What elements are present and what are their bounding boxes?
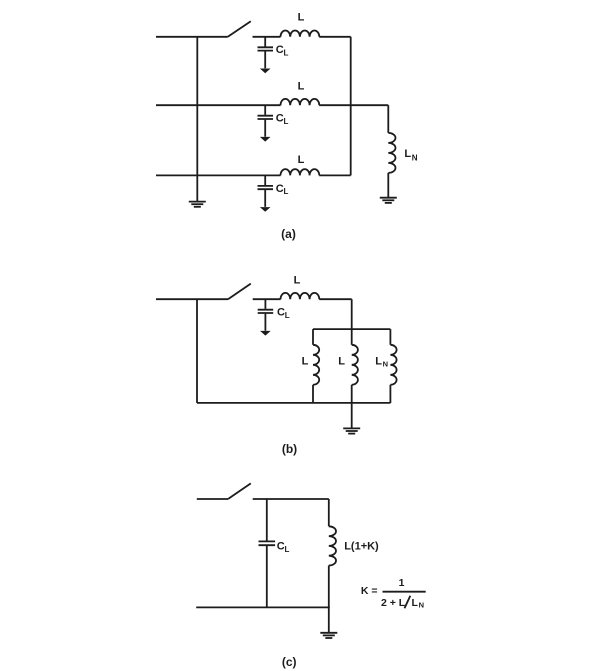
svg-text:L(1+K): L(1+K) [344, 541, 379, 553]
wire box top [313, 328, 390, 330]
capacitor CL row3 lead [264, 175, 266, 207]
inductor L(1+K) lead bottom [328, 566, 330, 608]
arrow ground b [260, 331, 271, 336]
wire b top right [319, 298, 352, 300]
svg-text:2 + L: 2 + L [381, 597, 406, 609]
inductor L row3 [281, 169, 320, 175]
inductor L left branch [313, 329, 319, 403]
switch S1 blade [228, 21, 251, 37]
svg-text:L: L [404, 148, 411, 160]
wire phase1 after switch [253, 36, 281, 38]
ground c [320, 633, 337, 638]
svg-text:L: L [302, 356, 309, 368]
inductor LN lead bottom [387, 173, 389, 198]
formula K equation [361, 577, 426, 610]
wire to ground c [328, 607, 330, 632]
capacitor CL c bottom lead [266, 546, 268, 607]
left vertical wire b [196, 299, 198, 403]
inductor LN coil [388, 133, 395, 173]
svg-text:L: L [285, 545, 290, 554]
capacitor CL row1 plates [258, 47, 274, 50]
svg-text:1: 1 [399, 577, 405, 589]
svg-text:(a): (a) [281, 227, 296, 241]
capacitor CL row2 lead [264, 105, 266, 137]
svg-text:L: L [298, 12, 305, 24]
inductor LN lead top [387, 105, 389, 133]
capacitor CL row2 plates [258, 116, 274, 119]
capacitor CL b lead [264, 299, 266, 331]
svg-text:L: L [298, 154, 305, 166]
inductor LN right branch [390, 329, 396, 403]
ground b [343, 428, 360, 433]
svg-text:L: L [285, 311, 290, 320]
svg-text:K =: K = [361, 585, 378, 597]
inductor L row2 [281, 99, 320, 105]
wire phase3 [156, 174, 281, 176]
inductor L top b [281, 293, 320, 299]
switch S2 blade [228, 284, 251, 300]
wire b after switch [253, 298, 281, 300]
svg-text:L: L [294, 275, 301, 287]
wire phase2 [156, 104, 281, 106]
svg-text:N: N [383, 359, 388, 368]
arrow ground row2 [260, 137, 271, 142]
wire c top left [197, 498, 228, 500]
svg-text:(b): (b) [282, 442, 297, 456]
capacitor CL c plates [259, 541, 276, 545]
wire row3 to bus [319, 174, 351, 176]
wire b top left [156, 298, 228, 300]
svg-text:L: L [284, 117, 289, 126]
wire c bottom [196, 606, 330, 608]
inductor L middle branch [352, 329, 358, 403]
inductor L(1+K) coil [329, 526, 336, 565]
svg-text:N: N [419, 600, 424, 609]
switch S3 blade [228, 483, 251, 499]
ground left of figure a [189, 202, 206, 207]
wire right bus vertical [350, 37, 352, 176]
arrow ground row3 [260, 207, 271, 212]
capacitor CL row1 lead [264, 37, 266, 69]
arrow ground row1 [260, 69, 271, 74]
capacitor CL b plates [258, 310, 274, 313]
inductor L row1 [281, 30, 320, 36]
svg-text:L: L [412, 597, 419, 609]
wire phase1 left segment [156, 36, 228, 38]
svg-text:(c): (c) [282, 655, 297, 669]
wire box bottom [197, 402, 390, 404]
wire row1 to bus [319, 36, 351, 38]
wire row2 to LN branch [319, 104, 388, 106]
capacitor CL row3 plates [258, 186, 274, 189]
svg-text:L: L [298, 81, 305, 93]
wire c top right [253, 498, 329, 500]
svg-text:L: L [284, 187, 289, 196]
svg-text:N: N [412, 154, 418, 163]
capacitor CL c top lead [266, 499, 268, 541]
svg-text:L: L [284, 48, 289, 57]
inductor L(1+K) lead top [328, 499, 330, 526]
wire to ground b [351, 403, 353, 428]
ground below LN [380, 198, 397, 203]
svg-text:L: L [375, 356, 382, 368]
svg-text:L: L [338, 356, 345, 368]
wire middle branch down [351, 299, 353, 329]
node junction left vertical bus [196, 37, 198, 202]
